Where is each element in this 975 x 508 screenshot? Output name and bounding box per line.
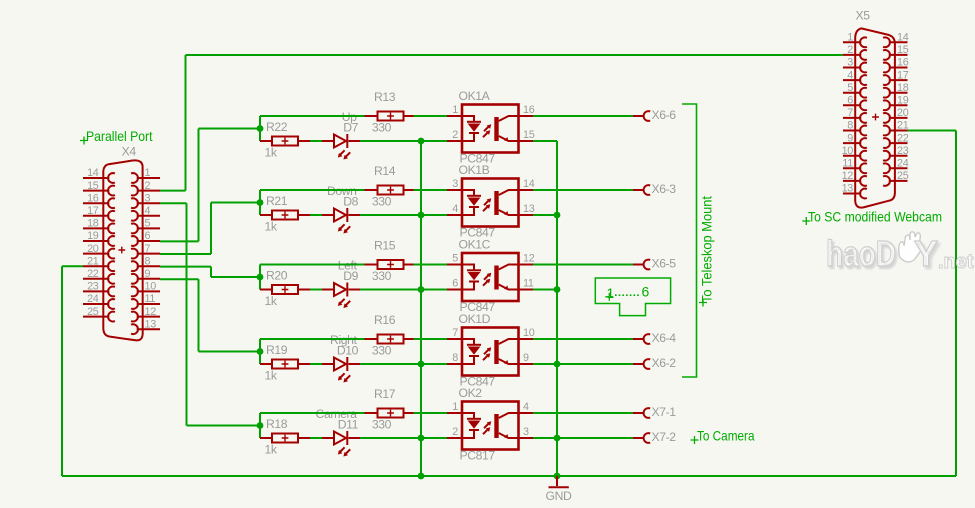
svg-text:R15: R15 xyxy=(374,239,396,253)
wire D9 to opto pin 6 xyxy=(349,289,361,291)
svg-text:24: 24 xyxy=(87,293,99,305)
wire row4 upper branch xyxy=(260,338,365,340)
wire R14 to opto pin 3 xyxy=(404,189,414,191)
svg-text:1: 1 xyxy=(452,401,458,413)
X5 pin 19 stub and contact xyxy=(889,104,908,106)
X5 pin 22 stub and contact xyxy=(889,142,908,144)
wire opto OK1C pin 12 to X6-5 xyxy=(519,264,534,266)
svg-text:2: 2 xyxy=(145,180,151,192)
connector X4 (DB25 parallel port) body xyxy=(103,160,142,340)
svg-text:R13: R13 xyxy=(374,90,396,104)
ground GND symbol xyxy=(556,476,558,486)
text origin cross for To Camera xyxy=(691,436,699,444)
svg-text:PC817: PC817 xyxy=(460,449,496,463)
svg-text:9: 9 xyxy=(847,132,853,144)
svg-text:330: 330 xyxy=(372,344,392,358)
X5 pin 17 stub and contact xyxy=(889,79,908,81)
X4 pin 4 stub and contact xyxy=(137,215,160,217)
vertical ground rail x=421 xyxy=(420,141,422,476)
X4 pin 20 stub and contact xyxy=(83,253,109,255)
svg-text:.net: .net xyxy=(938,251,974,273)
LED D11 xyxy=(334,431,350,457)
X4 pin 5 stub and contact xyxy=(137,227,160,229)
svg-text:25: 25 xyxy=(87,306,99,318)
X4 pin 21 stub and contact xyxy=(83,265,109,267)
wire D11 to opto pin 2 xyxy=(349,437,361,439)
svg-text:23: 23 xyxy=(897,145,909,157)
svg-text:R20: R20 xyxy=(266,269,288,283)
X4 pin 15 stub and contact xyxy=(83,190,109,192)
svg-text:X7-1: X7-1 xyxy=(652,405,677,419)
LED D9 xyxy=(334,283,350,309)
svg-text:16: 16 xyxy=(87,192,99,204)
svg-text:1k: 1k xyxy=(265,369,278,383)
X4 pin 9 stub and contact xyxy=(137,278,160,280)
wire R16 to opto pin 7 xyxy=(404,338,414,340)
svg-text:3: 3 xyxy=(452,178,458,190)
svg-text:3: 3 xyxy=(523,426,529,438)
X5 pin 2 stub and contact xyxy=(843,54,861,56)
svg-text:6: 6 xyxy=(847,95,853,107)
svg-text:To Teleskop Mount: To Teleskop Mount xyxy=(699,196,715,303)
resistor R17 (330) xyxy=(378,409,404,418)
X5 pin 18 stub and contact xyxy=(889,92,908,94)
svg-text:D9: D9 xyxy=(343,269,358,283)
svg-text:D7: D7 xyxy=(343,121,358,135)
svg-text:1k: 1k xyxy=(265,146,278,160)
X4 pin 3 stub and contact xyxy=(137,202,160,204)
svg-text:5: 5 xyxy=(145,218,151,230)
wire R15 to opto pin 5 xyxy=(404,264,414,266)
svg-text:21: 21 xyxy=(87,255,99,267)
svg-text:23: 23 xyxy=(87,281,99,293)
optocoupler OK1B (PC847) xyxy=(462,179,519,227)
X5 pin 11 stub and contact xyxy=(843,167,861,169)
svg-text:11: 11 xyxy=(842,158,853,170)
wire opto OK2 pin 4 to X7-1 xyxy=(519,412,534,414)
svg-text:X6-2: X6-2 xyxy=(652,356,677,370)
svg-text:4: 4 xyxy=(145,205,151,217)
wire D7 to opto pin 2 xyxy=(349,140,361,142)
svg-text:12: 12 xyxy=(842,170,854,182)
connector X5 (DB25 to webcam) body xyxy=(855,28,895,207)
X4 pin 12 stub and contact xyxy=(137,316,160,318)
X4 pin 18 stub and contact xyxy=(83,227,109,229)
X5 pin 4 stub and contact xyxy=(843,79,861,81)
X5 pin 15 stub and contact xyxy=(889,54,908,56)
svg-text:OK1A: OK1A xyxy=(459,89,491,103)
wire opto OK1D pin 10 to X6-4 xyxy=(519,338,534,340)
svg-text:15: 15 xyxy=(523,129,535,141)
svg-text:21: 21 xyxy=(897,120,909,132)
wire row2 upper branch xyxy=(260,189,365,191)
svg-text:10: 10 xyxy=(523,327,535,339)
resistor R16 (330) xyxy=(378,335,404,344)
optocoupler OK2 (PC817) xyxy=(462,402,519,450)
X5 pin 13 stub and contact xyxy=(843,193,861,195)
optocoupler OK1D (PC847) xyxy=(462,328,519,376)
svg-text:haoD: haoD xyxy=(826,233,896,274)
bracket for To Teleskop Mount xyxy=(682,104,697,377)
X5 pin 1 stub and contact xyxy=(843,41,861,43)
wire row5 upper branch xyxy=(260,412,365,414)
X5 pin 9 stub and contact xyxy=(843,142,861,144)
X4 pin 22 stub and contact xyxy=(83,278,109,280)
vertical emitter rail x=557 xyxy=(556,141,558,476)
svg-text:8: 8 xyxy=(145,255,151,267)
svg-text:17: 17 xyxy=(87,205,99,217)
resistor R15 (330) xyxy=(378,260,404,269)
svg-text:R16: R16 xyxy=(374,313,396,327)
svg-text:R22: R22 xyxy=(266,120,288,134)
svg-text:R14: R14 xyxy=(374,164,396,178)
resistor R21 (1k) xyxy=(272,211,298,220)
X5 pin 24 stub and contact xyxy=(889,167,908,169)
wire X4 pin21 ground loop: left, down, bottom rail to X5 pin21 xyxy=(62,265,83,267)
wire X4 pin8 to row3 junction xyxy=(160,266,211,268)
resistor R20 (1k) xyxy=(272,285,298,294)
svg-text:5: 5 xyxy=(847,82,853,94)
svg-text:D10: D10 xyxy=(337,344,359,358)
svg-text:14: 14 xyxy=(897,32,909,44)
svg-text:12: 12 xyxy=(145,306,157,318)
svg-text:1k: 1k xyxy=(265,294,278,308)
svg-text:D8: D8 xyxy=(343,195,358,209)
node row5 input junction xyxy=(259,413,261,438)
LED D7 xyxy=(334,134,350,160)
svg-text:5: 5 xyxy=(452,253,458,265)
svg-text:X5: X5 xyxy=(856,9,871,23)
connector pin X6-3 xyxy=(644,185,651,195)
svg-text:330: 330 xyxy=(372,195,392,209)
X5 pin 6 stub and contact xyxy=(843,104,861,106)
X4 pin 11 stub and contact xyxy=(137,303,160,305)
X4 pin 13 stub and contact xyxy=(137,328,160,330)
svg-text:22: 22 xyxy=(87,268,99,280)
X4 pin 1 stub and contact xyxy=(137,177,160,179)
svg-text:OK1C: OK1C xyxy=(459,238,491,252)
wire D8 to opto pin 4 xyxy=(349,214,361,216)
optocoupler OK1A (PC847) xyxy=(462,105,519,153)
X4 pin 17 stub and contact xyxy=(83,215,109,217)
wire row1 lower branch xyxy=(260,140,272,142)
wire X4 pin3 to row5 junction xyxy=(160,202,187,204)
junction rail557 row3 xyxy=(554,286,561,293)
text origin cross for plug label xyxy=(605,293,613,301)
svg-text:To Camera: To Camera xyxy=(697,428,755,444)
svg-text:6: 6 xyxy=(145,230,151,242)
svg-text:22: 22 xyxy=(897,132,909,144)
svg-text:19: 19 xyxy=(897,95,909,107)
svg-text:D11: D11 xyxy=(338,418,359,432)
svg-text:25: 25 xyxy=(897,170,909,182)
connector pin X6-5 xyxy=(644,260,651,270)
svg-text:OK2: OK2 xyxy=(459,386,483,400)
svg-text:330: 330 xyxy=(372,121,392,135)
svg-text:17: 17 xyxy=(897,69,909,81)
svg-text:9: 9 xyxy=(145,268,151,280)
svg-text:15: 15 xyxy=(897,44,909,56)
svg-text:18: 18 xyxy=(87,218,99,230)
X5 pin 8 stub and contact xyxy=(843,130,861,132)
X4 pin 2 stub and contact xyxy=(137,190,160,192)
wire row5 lower branch xyxy=(260,437,272,439)
junction rail421/bottom wire xyxy=(418,473,425,480)
svg-text:11: 11 xyxy=(523,278,534,290)
svg-text:2: 2 xyxy=(452,129,458,141)
svg-text:15: 15 xyxy=(87,180,99,192)
svg-text:7: 7 xyxy=(847,107,853,119)
wire X4 pin7 to row2 junction xyxy=(160,253,211,255)
svg-text:X4: X4 xyxy=(122,145,137,159)
X4 pin 19 stub and contact xyxy=(83,240,109,242)
svg-text:330: 330 xyxy=(372,418,392,432)
junction rail557 row2 xyxy=(554,212,561,219)
connector pin X6-2 xyxy=(644,359,651,369)
svg-text:8: 8 xyxy=(452,352,458,364)
wire R13 to opto pin 1 xyxy=(404,115,414,117)
svg-text:4: 4 xyxy=(452,203,458,215)
svg-text:7: 7 xyxy=(452,327,458,339)
wire opto OK1B pin 13 to rail xyxy=(519,214,534,216)
X5 pin 5 stub and contact xyxy=(843,92,861,94)
svg-text:16: 16 xyxy=(523,104,535,116)
X5 pin 20 stub and contact xyxy=(889,117,908,119)
svg-text:Parallel Port: Parallel Port xyxy=(86,128,153,144)
svg-text:X6-5: X6-5 xyxy=(652,257,677,271)
connector pin X6-6 xyxy=(644,111,651,121)
svg-text:1: 1 xyxy=(452,104,458,116)
svg-text:X6-4: X6-4 xyxy=(652,331,677,345)
X4 pin 10 stub and contact xyxy=(137,290,160,292)
X4 pin 6 stub and contact xyxy=(137,240,160,242)
resistor R18 (1k) xyxy=(272,434,298,443)
resistor R14 (330) xyxy=(378,186,404,195)
svg-text:OK1B: OK1B xyxy=(459,163,490,177)
wire opto OK1C pin 11 to rail xyxy=(519,289,534,291)
svg-text:R18: R18 xyxy=(266,417,288,431)
X5 pin 16 stub and contact xyxy=(889,67,908,69)
junction rail557 row4 xyxy=(554,361,561,368)
X5 pin 14 stub and contact xyxy=(889,41,908,43)
dotted line between 1 and 6 xyxy=(615,294,641,296)
svg-text:3: 3 xyxy=(847,57,853,69)
text origin cross for Parallel Port xyxy=(80,137,88,145)
svg-text:6: 6 xyxy=(452,278,458,290)
wire opto OK1A pin 15 to rail xyxy=(519,140,534,142)
svg-text:1: 1 xyxy=(607,285,615,301)
X4 pin 23 stub and contact xyxy=(83,290,109,292)
wire R22 to D7 xyxy=(298,140,310,142)
wire R20 to D9 xyxy=(298,289,310,291)
svg-text:1: 1 xyxy=(145,167,151,179)
node row3 input junction xyxy=(259,265,261,290)
RJ plug drawing (1...6) xyxy=(595,278,670,316)
junction rail421 row1 xyxy=(418,138,425,145)
svg-text:1k: 1k xyxy=(265,443,278,457)
svg-text:13: 13 xyxy=(523,203,535,215)
junction rail421 row4 xyxy=(418,361,425,368)
wire R18 to D11 xyxy=(298,437,310,439)
connector pin X6-4 xyxy=(644,334,651,344)
svg-text:9: 9 xyxy=(523,352,529,364)
optocoupler OK1C (PC847) xyxy=(462,253,519,301)
svg-text:8: 8 xyxy=(847,120,853,132)
wire opto OK2 pin 3 to rail xyxy=(519,437,534,439)
svg-text:1k: 1k xyxy=(265,220,278,234)
svg-text:11: 11 xyxy=(145,293,156,305)
X5 pin 12 stub and contact xyxy=(843,180,861,182)
X5 pin 10 stub and contact xyxy=(843,155,861,157)
wire X4 pin9 to row4 junction xyxy=(160,278,199,280)
junction rail421 row3 xyxy=(418,286,425,293)
wire X4 pin2 up and across top to X5 pin2 xyxy=(160,190,186,192)
wire R21 to D8 xyxy=(298,214,310,216)
resistor R13 (330) xyxy=(378,112,404,121)
resistor R19 (1k) xyxy=(272,360,298,369)
svg-text:OK1D: OK1D xyxy=(459,312,491,326)
svg-text:3: 3 xyxy=(145,192,151,204)
svg-text:R19: R19 xyxy=(266,343,288,357)
X4 pin 14 stub and contact xyxy=(83,177,109,179)
svg-text:14: 14 xyxy=(87,167,99,179)
svg-text:Y: Y xyxy=(914,233,938,274)
svg-text:GND: GND xyxy=(546,489,572,503)
connector pin X7-2 xyxy=(644,433,651,443)
wire row2 lower branch xyxy=(260,214,272,216)
junction rail421 row5 xyxy=(418,435,425,442)
LED D8 xyxy=(334,208,350,234)
node row4 input junction xyxy=(259,339,261,364)
wire opto OK1B pin 14 to X6-3 xyxy=(519,189,534,191)
junction rail557 row5 xyxy=(554,435,561,442)
svg-text:7: 7 xyxy=(145,243,151,255)
LED D10 xyxy=(334,357,350,383)
svg-text:X6-3: X6-3 xyxy=(652,182,677,196)
wire opto OK1A pin 16 to X6-6 xyxy=(519,115,534,117)
node row1 input junction xyxy=(259,116,261,141)
svg-text:10: 10 xyxy=(145,281,157,293)
X4 pin 24 stub and contact xyxy=(83,303,109,305)
connector X4 center origin cross xyxy=(118,247,125,254)
svg-text:20: 20 xyxy=(897,107,909,119)
text origin cross for To Teleskop Mount xyxy=(699,299,707,307)
svg-text:2: 2 xyxy=(452,426,458,438)
X5 pin 3 stub and contact xyxy=(843,67,861,69)
svg-text:14: 14 xyxy=(523,178,535,190)
X4 pin 25 stub and contact xyxy=(83,316,109,318)
junction rail557/bottom wire xyxy=(554,473,561,480)
svg-text:1: 1 xyxy=(847,32,853,44)
svg-text:X6-6: X6-6 xyxy=(652,108,677,122)
svg-text:13: 13 xyxy=(145,318,157,330)
svg-text:24: 24 xyxy=(897,158,909,170)
svg-text:R17: R17 xyxy=(374,387,396,401)
X4 pin 8 stub and contact xyxy=(137,265,160,267)
watermark haoDIY.net xyxy=(826,232,974,274)
wire row1 upper branch xyxy=(260,115,365,117)
svg-text:4: 4 xyxy=(523,401,529,413)
svg-text:6: 6 xyxy=(642,284,650,300)
junction rail421 row2 xyxy=(418,212,425,219)
X5 pin 25 stub and contact xyxy=(889,180,908,182)
svg-text:20: 20 xyxy=(87,243,99,255)
svg-text:10: 10 xyxy=(842,145,854,157)
svg-text:13: 13 xyxy=(842,183,854,195)
svg-text:To SC modified Webcam: To SC modified Webcam xyxy=(808,209,942,225)
svg-text:X7-2: X7-2 xyxy=(652,430,677,444)
wire opto OK1D pin 9 to rail xyxy=(519,363,534,365)
X4 pin 16 stub and contact xyxy=(83,202,109,204)
wire row4 lower branch xyxy=(260,363,272,365)
connector pin X7-1 xyxy=(644,408,651,418)
text origin cross for To SC modified Webcam xyxy=(802,217,810,225)
svg-text:12: 12 xyxy=(523,253,535,265)
svg-text:330: 330 xyxy=(372,269,392,283)
X5 pin 7 stub and contact xyxy=(843,117,861,119)
svg-text:R21: R21 xyxy=(266,194,288,208)
node row2 input junction xyxy=(259,190,261,215)
wire R17 to opto pin 1 xyxy=(404,412,414,414)
svg-text:19: 19 xyxy=(87,230,99,242)
svg-text:16: 16 xyxy=(897,57,909,69)
X4 pin 7 stub and contact xyxy=(137,253,160,255)
wire row3 lower branch xyxy=(260,289,272,291)
wire X4 pin6 to row1 junction xyxy=(160,240,199,242)
svg-text:18: 18 xyxy=(897,82,909,94)
svg-text:2: 2 xyxy=(847,44,853,56)
svg-text:4: 4 xyxy=(847,69,853,81)
X5 pin 23 stub and contact xyxy=(889,155,908,157)
resistor R22 (1k) xyxy=(272,137,298,146)
X5 pin 21 stub and contact xyxy=(889,130,908,132)
wire R19 to D10 xyxy=(298,363,310,365)
wire row3 upper branch xyxy=(260,264,365,266)
wire D10 to opto pin 8 xyxy=(349,363,361,365)
connector X5 center origin cross xyxy=(872,114,879,121)
